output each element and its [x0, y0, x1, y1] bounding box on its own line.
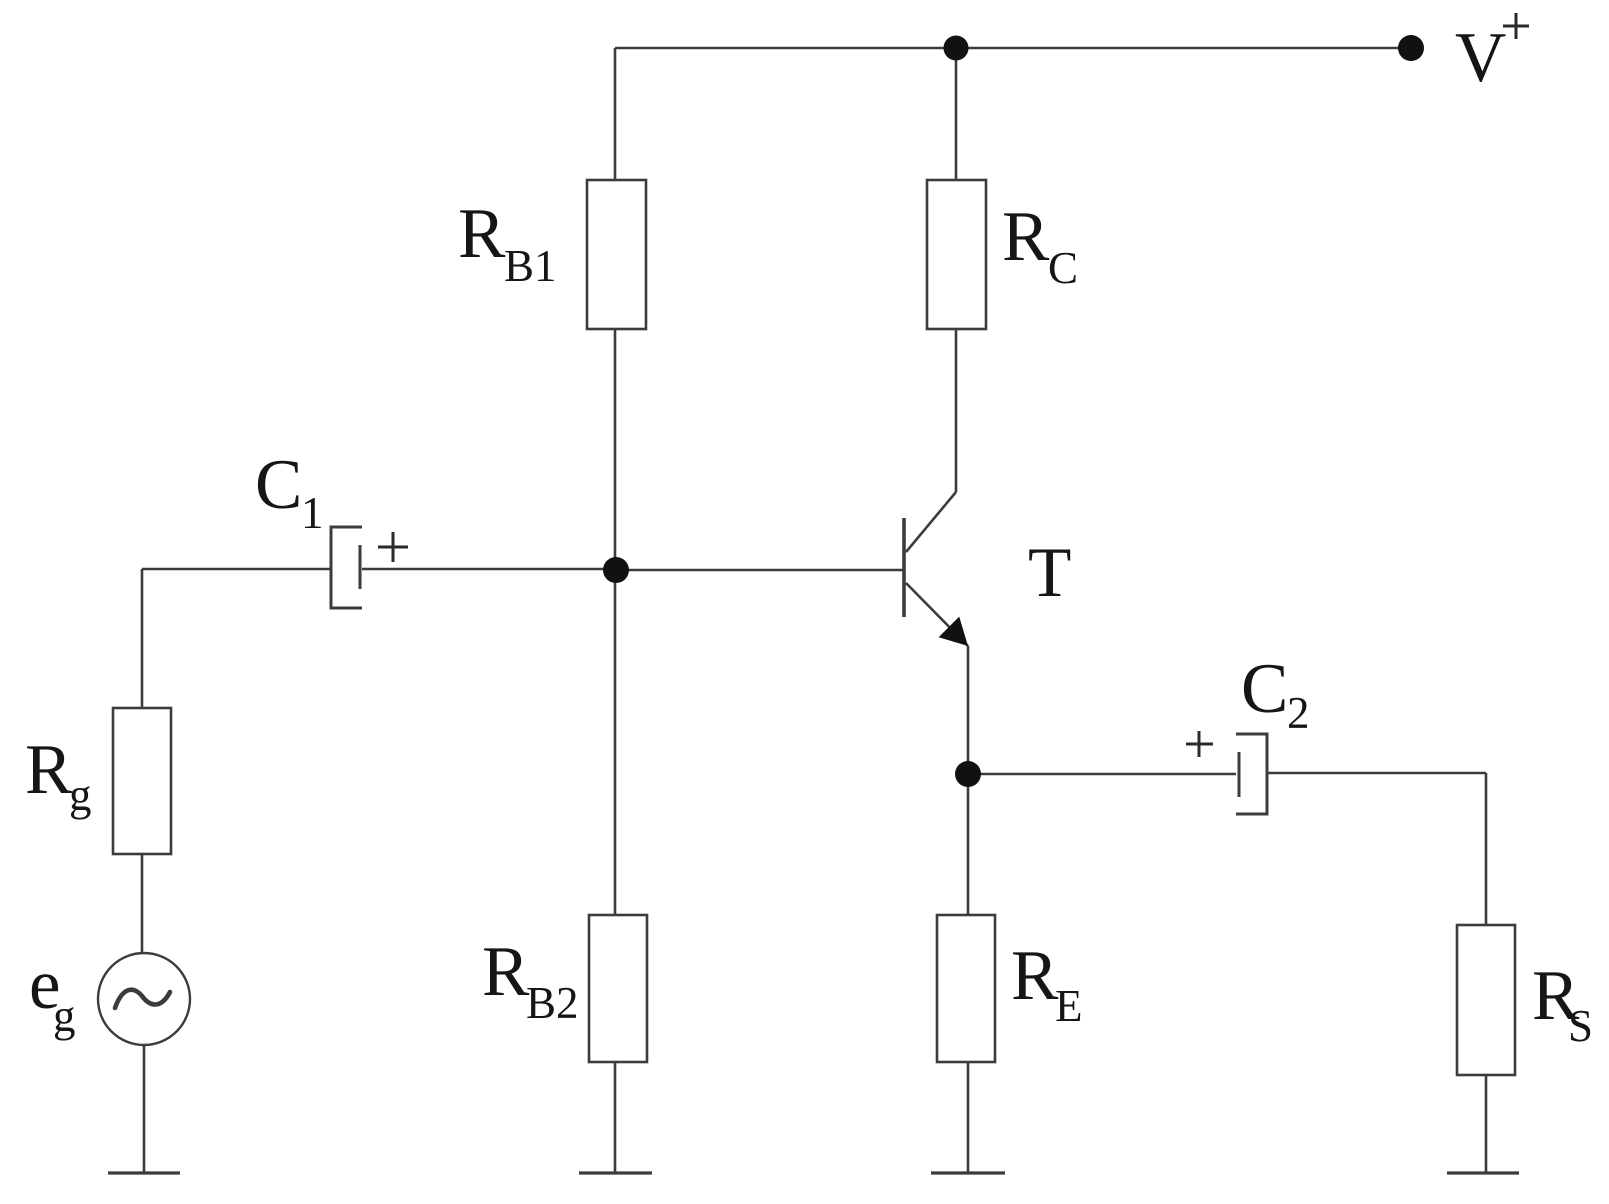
svg-text:R: R — [482, 933, 530, 1011]
wire C2 left — [968, 773, 1236, 776]
svg-text:S: S — [1568, 1001, 1593, 1051]
node base junction — [603, 557, 629, 583]
wire RS column down — [1485, 773, 1488, 925]
wire C2 to RS — [1267, 772, 1486, 775]
plus sign C1 — [378, 532, 408, 562]
svg-text:g: g — [69, 770, 92, 820]
svg-text:T: T — [1028, 534, 1071, 612]
source eg sine — [115, 990, 170, 1008]
transistor T collector lead — [906, 492, 956, 552]
ground RB2 — [579, 1171, 652, 1174]
resistor RB2 — [589, 915, 647, 1062]
svg-text:R: R — [1011, 937, 1059, 1015]
svg-text:R: R — [25, 731, 73, 809]
svg-text:g: g — [53, 991, 76, 1041]
svg-text:R: R — [1002, 198, 1050, 276]
terminal V+ dot — [1398, 35, 1424, 61]
svg-text:E: E — [1055, 981, 1083, 1031]
resistor RE — [937, 915, 995, 1062]
svg-text:V: V — [1455, 19, 1506, 97]
wire C1 left — [142, 568, 331, 571]
node junction top rail — [944, 36, 969, 61]
source eg circle — [98, 953, 190, 1045]
plus sign C2 — [1186, 731, 1213, 757]
svg-text:2: 2 — [1287, 688, 1310, 738]
svg-text:B1: B1 — [504, 241, 557, 291]
wire input column down — [141, 569, 144, 708]
capacitor C1 straight plate — [359, 545, 362, 589]
wire base — [616, 569, 904, 572]
capacitor C2 curved plate bracket — [1236, 734, 1267, 814]
node emitter junction — [955, 761, 981, 787]
transistor T emitter arrow — [939, 617, 968, 646]
resistor RB1 — [587, 180, 646, 329]
wire source to ground — [143, 1045, 146, 1173]
wire C1 to base node — [362, 568, 616, 571]
wire RB2 to ground — [614, 1062, 617, 1173]
wire RE to ground — [967, 1062, 970, 1173]
wire emitter node to RE — [967, 774, 970, 915]
wire RB1 branch top — [614, 48, 617, 180]
wire RB1 to base node — [614, 329, 617, 570]
transistor T base bar — [902, 518, 906, 617]
capacitor C1 curved plate bracket — [331, 527, 362, 608]
wire Rg to source — [141, 854, 144, 953]
wire RC to collector — [955, 329, 958, 492]
wire RS to ground — [1485, 1075, 1488, 1173]
capacitor C2 straight plate — [1238, 752, 1241, 797]
ground RE — [931, 1171, 1005, 1174]
wire RC branch top — [955, 48, 958, 180]
svg-text:C: C — [1048, 243, 1078, 293]
resistor RC — [927, 180, 986, 329]
svg-text:C: C — [255, 446, 302, 524]
resistor Rg — [113, 708, 171, 854]
wire emitter vertical — [967, 646, 970, 774]
svg-text:R: R — [458, 195, 506, 273]
wire base node to RB2 — [614, 570, 617, 915]
plus sign V+ — [1503, 13, 1529, 39]
ground RS — [1447, 1171, 1519, 1174]
transistor T emitter lead — [906, 583, 968, 646]
svg-text:B2: B2 — [526, 978, 579, 1028]
resistor RS — [1457, 925, 1515, 1075]
svg-text:1: 1 — [301, 488, 324, 538]
ground eg — [108, 1171, 180, 1174]
wire top rail V+ — [615, 47, 1411, 50]
svg-text:C: C — [1241, 650, 1288, 728]
